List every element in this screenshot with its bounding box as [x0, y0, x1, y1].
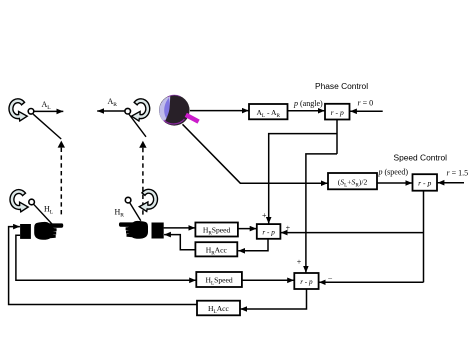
left arm rod [33, 114, 61, 139]
rotation arrow (left hand) [10, 190, 28, 212]
pivot node (left hand) [29, 199, 35, 205]
wire H_R Speed to right-hand summer [238, 228, 257, 230]
wire right hand to H_R Speed [164, 227, 196, 229]
arrow A_R [97, 110, 124, 112]
svg-text:r - p: r - p [262, 228, 275, 236]
wire ball to A_L-A_R block [190, 110, 249, 112]
wire left-hand summer output to H_L Acc [240, 289, 306, 309]
left hand rod [34, 204, 52, 224]
svg-text:p (speed): p (speed) [378, 168, 409, 177]
block H_L Speed [196, 272, 242, 287]
wire right-hand summer output to H_R Acc [238, 239, 268, 251]
pivot node (left arm) [28, 109, 34, 115]
svg-text:HL: HL [44, 204, 54, 215]
wire H_L Speed to left-hand summer [242, 279, 294, 281]
wire phase error trunk [336, 120, 338, 154]
block H_R Acc [195, 242, 237, 256]
dashed arrow (right arm to hand H_R) [139, 141, 146, 215]
svg-text:r - p: r - p [331, 108, 344, 117]
wire left hand to H_L Speed [16, 235, 196, 280]
svg-text:+: + [262, 211, 267, 220]
dashed arrow (left arm to hand H_L) [58, 141, 65, 215]
block phase comparator r - p [325, 104, 350, 120]
block H_R Speed [195, 223, 238, 237]
svg-text:+: + [297, 258, 302, 267]
block H_L Acc [197, 301, 240, 316]
rotation arrow (right hand) [139, 189, 157, 211]
ball [159, 95, 199, 126]
wire speed error branch to right-hand summer [281, 232, 424, 234]
left hand cuff [20, 224, 31, 239]
wire speed error trunk [423, 191, 425, 283]
right hand (H_R) [119, 221, 147, 238]
svg-text:Speed Control: Speed Control [394, 152, 448, 162]
block averager (S_L+S_R)/2 [328, 173, 377, 189]
right hand cuff [152, 223, 164, 239]
block speed comparator r - p [413, 174, 438, 191]
right hand rod [130, 203, 141, 221]
svg-text:p (angle): p (angle) [293, 99, 323, 108]
pivot node (right arm) [125, 108, 131, 114]
block A_L - A_R [249, 104, 288, 119]
right arm rod [129, 114, 146, 137]
wire averager to speed comparator [377, 182, 412, 184]
wire r=1.5 input [438, 182, 464, 184]
left hand (H_L) [35, 222, 63, 239]
svg-text:r = 0: r = 0 [358, 98, 374, 107]
wire H_L Acc return to left hand [9, 227, 197, 305]
rotation arrow (right arm) [132, 99, 150, 121]
svg-text:AL: AL [42, 100, 52, 111]
svg-text:–: – [327, 273, 332, 282]
wire r=0 input [350, 110, 383, 112]
wire phase error branch to right-hand summer [269, 134, 337, 224]
svg-text:r - p: r - p [300, 278, 313, 286]
summing junction (left hand) r - p [294, 273, 318, 289]
arrow A_L [35, 110, 64, 112]
svg-text:AR: AR [108, 97, 118, 108]
pivot node (right hand) [125, 197, 131, 203]
wire ball to averager block [183, 124, 328, 183]
svg-text:r - p: r - p [418, 179, 431, 188]
wire H_R Acc return to right hand [164, 235, 195, 250]
svg-text:+: + [286, 223, 291, 232]
wire speed error branch to left-hand summer [319, 281, 424, 283]
wire A_L-A_R to phase comparator [288, 110, 325, 112]
rotation arrow (left arm) [9, 99, 27, 121]
svg-text:HR: HR [115, 208, 125, 219]
summing junction (right hand) r - p [257, 224, 281, 239]
svg-text:r = 1.5: r = 1.5 [447, 169, 469, 178]
wire phase error branch to left-hand summer [306, 154, 337, 273]
svg-text:Phase Control: Phase Control [315, 81, 368, 91]
